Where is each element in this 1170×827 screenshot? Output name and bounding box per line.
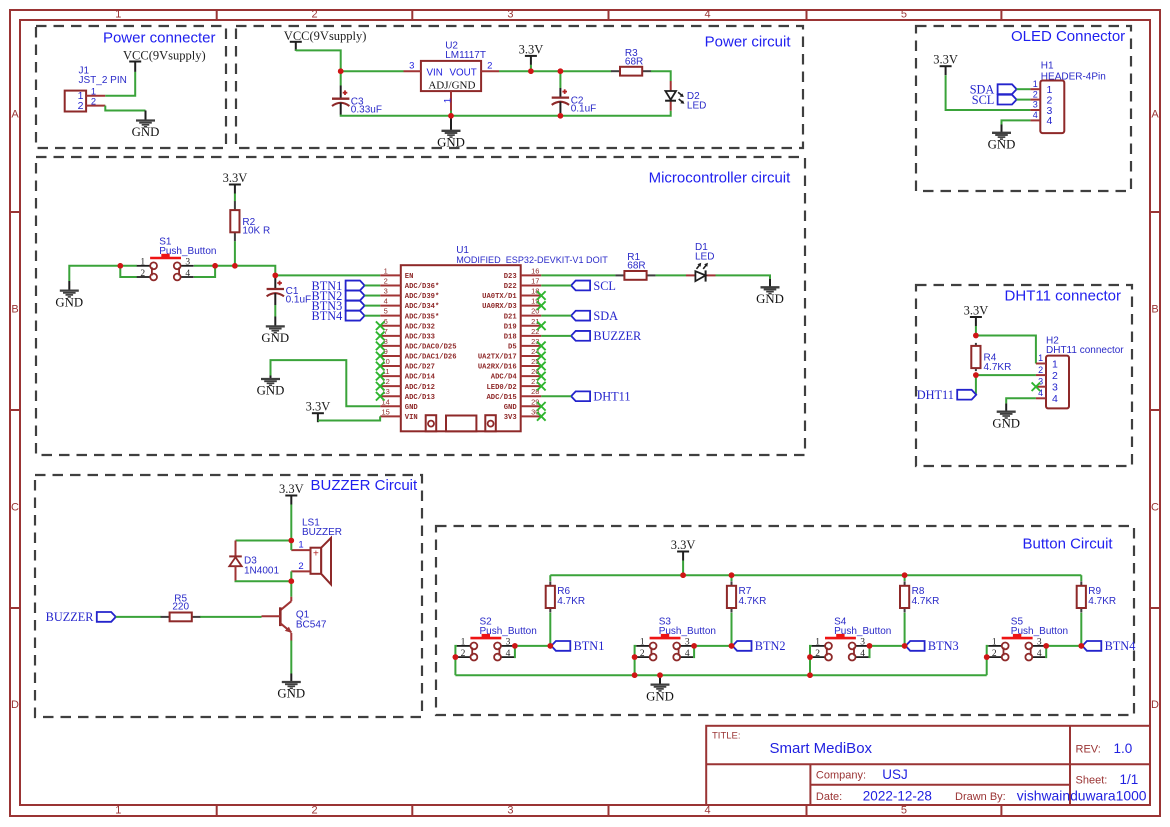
svg-text:GND: GND xyxy=(504,404,518,412)
svg-text:GND: GND xyxy=(756,292,784,306)
svg-text:B: B xyxy=(11,304,18,316)
junction xyxy=(902,643,908,649)
regulator U2 xyxy=(404,41,500,111)
svg-text:ADC/D27: ADC/D27 xyxy=(405,364,435,372)
section Button Circuit xyxy=(436,526,1134,715)
svg-text:4: 4 xyxy=(685,649,690,659)
wire xyxy=(290,641,292,674)
power flag 3.3V VIN xyxy=(306,400,331,423)
svg-text:2: 2 xyxy=(91,97,96,107)
svg-text:2: 2 xyxy=(992,649,997,659)
svg-text:5: 5 xyxy=(384,307,388,316)
net flag BTN2 xyxy=(733,639,786,653)
junction xyxy=(1079,643,1085,649)
resistor R4 xyxy=(971,343,1011,373)
svg-text:68R: 68R xyxy=(625,57,643,68)
svg-text:4: 4 xyxy=(1047,115,1053,127)
ground xyxy=(437,118,465,150)
svg-text:Company:: Company: xyxy=(816,770,866,782)
junction dots overlay xyxy=(118,68,1085,678)
svg-text:2: 2 xyxy=(487,61,492,72)
svg-text:0.33uF: 0.33uF xyxy=(351,105,382,116)
net flag SCL xyxy=(972,93,1017,107)
svg-text:Microcontroller circuit: Microcontroller circuit xyxy=(649,170,792,187)
svg-text:GND: GND xyxy=(437,136,465,150)
power flag 3.3V xyxy=(519,42,544,65)
wire xyxy=(549,575,551,646)
junction buzzer bottom xyxy=(289,578,295,584)
svg-text:4: 4 xyxy=(185,269,190,279)
wire xyxy=(318,416,380,420)
net flag BTN2 xyxy=(312,289,365,303)
ground xyxy=(277,674,305,701)
svg-text:ADC/D32: ADC/D32 xyxy=(405,323,435,331)
wire xyxy=(365,295,381,297)
wire xyxy=(236,580,292,582)
wire xyxy=(274,305,276,317)
wire xyxy=(365,284,381,286)
junction xyxy=(657,672,663,678)
net flag BTN3 xyxy=(906,639,959,653)
svg-text:4: 4 xyxy=(506,649,511,659)
junction xyxy=(807,672,813,678)
junction R4 top xyxy=(973,333,979,339)
svg-text:USJ: USJ xyxy=(882,767,908,782)
svg-text:1: 1 xyxy=(442,98,453,103)
net flag BUZZER xyxy=(571,329,642,343)
svg-text:3: 3 xyxy=(507,805,513,817)
svg-text:1.0: 1.0 xyxy=(1114,741,1133,756)
svg-text:SCL: SCL xyxy=(593,279,616,293)
wire xyxy=(946,75,1031,110)
svg-text:1N4001: 1N4001 xyxy=(244,566,279,577)
net flag SCL xyxy=(571,279,616,293)
svg-text:4.7KR: 4.7KR xyxy=(1088,596,1116,607)
ground xyxy=(55,281,83,309)
pushbutton S5 xyxy=(988,616,1068,660)
svg-text:GND: GND xyxy=(257,384,285,398)
svg-text:4: 4 xyxy=(860,649,865,659)
svg-text:2: 2 xyxy=(461,649,466,659)
svg-text:4: 4 xyxy=(704,805,710,817)
svg-text:Power connecter: Power connecter xyxy=(103,30,216,47)
wire xyxy=(105,72,135,96)
junction xyxy=(729,643,735,649)
header H2 xyxy=(1036,336,1124,409)
svg-text:4.7KR: 4.7KR xyxy=(984,362,1012,373)
svg-text:21: 21 xyxy=(531,317,539,326)
svg-text:2: 2 xyxy=(640,649,645,659)
svg-text:BUZZER: BUZZER xyxy=(302,527,342,538)
svg-text:BTN3: BTN3 xyxy=(928,639,959,653)
svg-text:3.3V: 3.3V xyxy=(964,303,989,317)
svg-text:LED: LED xyxy=(695,252,714,263)
svg-text:ADC/D36*: ADC/D36* xyxy=(405,283,440,291)
svg-text:1: 1 xyxy=(640,638,645,648)
svg-text:4: 4 xyxy=(704,9,710,21)
svg-text:GND: GND xyxy=(55,295,83,309)
power flag VCC(9Vsupply) J1 xyxy=(123,48,206,72)
junction xyxy=(632,654,638,675)
wire xyxy=(290,505,292,541)
wire xyxy=(682,561,684,576)
svg-text:2: 2 xyxy=(815,649,820,659)
net flag BTN1 xyxy=(551,639,604,653)
svg-text:UA2RX/D16: UA2RX/D16 xyxy=(478,364,517,372)
svg-text:2: 2 xyxy=(1052,370,1058,382)
svg-text:GND: GND xyxy=(992,416,1020,430)
wire top rail right xyxy=(499,70,611,72)
wire xyxy=(340,71,342,85)
junction xyxy=(1043,643,1049,657)
svg-text:D: D xyxy=(11,699,19,711)
svg-text:Drawn By:: Drawn By: xyxy=(955,791,1006,803)
svg-text:BC547: BC547 xyxy=(296,620,327,631)
svg-text:ADC/D33: ADC/D33 xyxy=(405,333,435,341)
svg-text:Smart MediBox: Smart MediBox xyxy=(770,740,873,757)
wire xyxy=(200,616,261,618)
resistor R3 xyxy=(611,48,651,75)
net flag DHT11 xyxy=(571,390,630,404)
ground xyxy=(756,279,784,306)
junction top rail left xyxy=(338,68,404,74)
svg-text:2: 2 xyxy=(78,100,84,112)
wire xyxy=(558,68,564,88)
svg-text:ADC/D4: ADC/D4 xyxy=(491,374,518,382)
svg-text:ADC/DAC1/D26: ADC/DAC1/D26 xyxy=(405,354,457,362)
ground xyxy=(988,125,1016,152)
net flag BTN4 xyxy=(1082,639,1135,653)
svg-text:3: 3 xyxy=(1052,382,1058,394)
svg-text:3.3V: 3.3V xyxy=(933,53,958,67)
wire xyxy=(541,274,615,276)
title block xyxy=(706,726,1150,805)
pushbutton S2 xyxy=(457,616,537,660)
wire xyxy=(271,360,381,406)
resistor R9 xyxy=(1077,581,1116,612)
svg-text:1/1: 1/1 xyxy=(1120,772,1139,787)
wire xyxy=(116,616,161,618)
svg-text:DHT11: DHT11 xyxy=(593,390,630,404)
wire xyxy=(290,581,292,597)
junction xyxy=(512,643,518,657)
wire xyxy=(976,336,1036,364)
wire xyxy=(987,646,989,657)
wire xyxy=(1017,88,1031,90)
ground xyxy=(646,678,674,704)
svg-text:3.3V: 3.3V xyxy=(306,400,331,414)
wire xyxy=(716,275,771,279)
svg-text:Sheet:: Sheet: xyxy=(1076,774,1108,786)
wire xyxy=(514,645,550,647)
section BUZZER Circuit xyxy=(35,475,422,717)
pushbutton S3 xyxy=(636,616,716,660)
junction S1 right xyxy=(194,263,218,277)
svg-text:3: 3 xyxy=(185,258,190,268)
svg-text:BUZZER: BUZZER xyxy=(593,329,642,343)
svg-text:3: 3 xyxy=(384,287,388,296)
svg-text:SDA: SDA xyxy=(593,309,618,323)
wire xyxy=(869,645,905,647)
svg-text:1: 1 xyxy=(115,9,121,21)
junction 3.3V rail xyxy=(528,68,534,74)
net flag SDA xyxy=(571,309,618,323)
svg-text:18: 18 xyxy=(531,287,539,296)
svg-text:1: 1 xyxy=(384,266,388,275)
capacitor C1 xyxy=(267,277,312,306)
svg-text:BUZZER Circuit: BUZZER Circuit xyxy=(311,477,419,494)
svg-text:VCC(9Vsupply): VCC(9Vsupply) xyxy=(123,48,206,62)
svg-text:ADC/D12: ADC/D12 xyxy=(405,384,435,392)
svg-text:1: 1 xyxy=(1052,358,1058,370)
wire xyxy=(541,335,571,337)
junction xyxy=(680,572,686,578)
svg-text:2022-12-28: 2022-12-28 xyxy=(863,788,932,803)
svg-text:3.3V: 3.3V xyxy=(223,171,248,185)
resistor R1 xyxy=(615,252,655,280)
svg-text:D: D xyxy=(1151,699,1159,711)
svg-text:2: 2 xyxy=(298,561,303,572)
svg-text:3: 3 xyxy=(507,9,513,21)
junction xyxy=(984,654,990,675)
svg-text:ADC/D14: ADC/D14 xyxy=(405,374,436,382)
power flag 3.3V OLED xyxy=(933,53,958,76)
connector J1 xyxy=(65,66,127,112)
svg-text:1: 1 xyxy=(461,638,466,648)
svg-text:1: 1 xyxy=(115,805,121,817)
resistor R6 xyxy=(546,581,585,612)
transistor Q1 xyxy=(262,597,327,641)
net flag BTN1 xyxy=(312,279,365,293)
wire xyxy=(731,575,733,646)
net flag BUZZER xyxy=(46,610,116,624)
wire xyxy=(1080,575,1082,646)
wire xyxy=(693,645,731,647)
svg-text:16: 16 xyxy=(531,266,539,275)
resistor R7 xyxy=(727,581,766,612)
svg-text:3: 3 xyxy=(409,61,414,72)
section DHT11 connector xyxy=(916,285,1132,466)
wire xyxy=(105,106,145,111)
svg-text:vishwainduwara1000: vishwainduwara1000 xyxy=(1017,787,1147,803)
junction xyxy=(729,572,735,578)
svg-text:Button Circuit: Button Circuit xyxy=(1023,536,1114,553)
section Microcontroller circuit xyxy=(36,157,805,455)
svg-text:4: 4 xyxy=(1037,649,1042,659)
wire top rail xyxy=(550,574,1081,576)
wire xyxy=(365,305,381,307)
svg-text:VIN: VIN xyxy=(427,67,443,78)
LED D2 xyxy=(665,81,706,111)
section Power connecter xyxy=(36,26,226,148)
svg-text:+: + xyxy=(313,549,319,560)
no-connect H2 pin3 xyxy=(1032,382,1041,391)
svg-text:15: 15 xyxy=(382,407,390,416)
svg-text:0.1uF: 0.1uF xyxy=(286,294,312,305)
capacitor C3 xyxy=(332,86,382,116)
wire xyxy=(234,194,236,202)
wire xyxy=(296,50,341,71)
svg-text:D21: D21 xyxy=(504,313,518,321)
svg-text:68R: 68R xyxy=(627,260,645,271)
wire bottom rail xyxy=(341,111,671,116)
svg-text:OLED Connector: OLED Connector xyxy=(1011,28,1125,45)
wire xyxy=(541,284,571,286)
svg-text:UA0RX/D3: UA0RX/D3 xyxy=(482,303,517,311)
header H1 xyxy=(1030,60,1105,133)
svg-text:D5: D5 xyxy=(508,343,517,351)
svg-text:23: 23 xyxy=(531,337,539,346)
svg-text:1: 1 xyxy=(1033,79,1038,89)
svg-text:BTN4: BTN4 xyxy=(312,309,343,323)
buzzer LS1 xyxy=(291,517,342,584)
svg-text:A: A xyxy=(11,109,19,121)
junction buzzer top xyxy=(289,538,295,544)
section OLED Connector xyxy=(916,26,1131,191)
wire xyxy=(810,646,812,657)
wire xyxy=(365,315,381,317)
svg-text:3: 3 xyxy=(1033,100,1038,110)
svg-text:EN: EN xyxy=(405,273,414,281)
svg-text:D23: D23 xyxy=(504,273,517,281)
svg-text:UA2TX/D17: UA2TX/D17 xyxy=(478,354,517,362)
wire xyxy=(541,315,571,317)
svg-text:Date:: Date: xyxy=(816,791,842,803)
svg-text:1: 1 xyxy=(91,87,96,97)
LED D1 xyxy=(686,242,716,281)
junction R4 bottom xyxy=(973,372,979,378)
svg-text:3: 3 xyxy=(1037,638,1042,648)
wire xyxy=(904,575,906,646)
svg-text:BTN4: BTN4 xyxy=(1105,639,1136,653)
svg-text:ADC/D15: ADC/D15 xyxy=(486,394,516,402)
svg-text:LED0/D2: LED0/D2 xyxy=(486,384,516,392)
microcontroller U1 xyxy=(380,245,608,431)
wire xyxy=(236,540,292,542)
wire xyxy=(194,265,235,267)
svg-text:17: 17 xyxy=(531,276,539,285)
svg-text:SCL: SCL xyxy=(972,93,995,107)
power flag 3.3V buzzer xyxy=(279,482,304,505)
svg-text:1: 1 xyxy=(298,540,303,551)
svg-text:JST_2 PIN: JST_2 PIN xyxy=(79,75,127,86)
svg-text:REV:: REV: xyxy=(1076,743,1101,755)
junction S1 left xyxy=(118,263,137,277)
junction xyxy=(632,672,638,678)
wire xyxy=(290,541,292,551)
svg-text:5: 5 xyxy=(901,805,907,817)
svg-text:ADC/D35*: ADC/D35* xyxy=(405,313,440,321)
wire xyxy=(541,395,571,397)
capacitor C2 xyxy=(552,88,597,115)
wire xyxy=(530,65,532,71)
svg-text:C: C xyxy=(1151,502,1159,514)
junction xyxy=(548,643,554,649)
svg-text:2: 2 xyxy=(311,805,317,817)
svg-text:D19: D19 xyxy=(504,323,517,331)
svg-text:UA0TX/D1: UA0TX/D1 xyxy=(482,293,517,301)
ground xyxy=(992,403,1020,430)
pushbutton S4 xyxy=(812,616,892,660)
svg-text:VOUT: VOUT xyxy=(449,67,476,78)
svg-text:3V3: 3V3 xyxy=(504,414,517,422)
svg-text:4.7KR: 4.7KR xyxy=(557,596,585,607)
junction xyxy=(691,643,697,657)
svg-text:4: 4 xyxy=(1052,393,1058,405)
power flag 3.3V DHT11 xyxy=(964,303,989,326)
net flag BTN4 xyxy=(312,309,365,323)
svg-text:3: 3 xyxy=(506,638,511,648)
svg-text:GND: GND xyxy=(261,331,289,345)
wire xyxy=(232,241,238,268)
wire xyxy=(1006,398,1036,403)
pushbutton S1 xyxy=(137,236,217,280)
wire xyxy=(659,675,661,678)
resistor R8 xyxy=(900,581,939,612)
svg-text:10K R: 10K R xyxy=(242,226,270,237)
svg-text:Power circuit: Power circuit xyxy=(705,34,792,51)
svg-text:LM1117T: LM1117T xyxy=(445,50,486,61)
svg-text:2: 2 xyxy=(384,276,388,285)
svg-text:DHT11 connector: DHT11 connector xyxy=(1005,288,1121,305)
svg-text:1: 1 xyxy=(140,258,145,268)
svg-text:LED: LED xyxy=(687,100,706,111)
svg-text:GND: GND xyxy=(132,125,160,139)
svg-text:3.3V: 3.3V xyxy=(519,42,544,56)
svg-text:H1: H1 xyxy=(1041,60,1054,71)
power flag VCC(9Vsupply) xyxy=(284,29,367,51)
svg-text:4: 4 xyxy=(384,297,388,306)
svg-text:VIN: VIN xyxy=(405,414,418,422)
svg-text:MODIFIED_ESP32-DEVKIT-V1 DOIT: MODIFIED_ESP32-DEVKIT-V1 DOIT xyxy=(456,255,608,265)
wire bottom rail xyxy=(455,674,986,676)
svg-text:2: 2 xyxy=(311,9,317,21)
svg-text:GND: GND xyxy=(277,687,305,701)
svg-text:3: 3 xyxy=(860,638,865,648)
svg-text:GND: GND xyxy=(988,138,1016,152)
wire xyxy=(1045,645,1081,647)
svg-text:3.3V: 3.3V xyxy=(671,538,696,552)
net flag BTN3 xyxy=(312,299,365,313)
wire xyxy=(635,646,637,657)
net flag SDA xyxy=(970,83,1017,97)
resistor R5 xyxy=(161,593,201,621)
svg-text:3: 3 xyxy=(685,638,690,648)
junction C2 bottom xyxy=(558,113,564,119)
svg-text:DHT11: DHT11 xyxy=(917,388,954,402)
svg-text:TITLE:: TITLE: xyxy=(712,731,741,742)
junction xyxy=(902,572,908,578)
svg-text:ADC/D39*: ADC/D39* xyxy=(405,293,440,301)
svg-text:2: 2 xyxy=(140,269,145,279)
svg-text:0.1uF: 0.1uF xyxy=(571,104,597,115)
svg-text:2: 2 xyxy=(1033,89,1038,99)
power flag 3.3V R2 xyxy=(223,171,248,194)
wire xyxy=(69,266,137,281)
wire xyxy=(1002,120,1031,124)
wire xyxy=(235,266,380,276)
svg-text:GND: GND xyxy=(405,404,419,412)
wire xyxy=(975,375,977,395)
net flag DHT11 xyxy=(917,388,976,402)
wire xyxy=(455,646,457,657)
junction xyxy=(453,654,459,675)
resistor R2 xyxy=(230,201,270,241)
svg-text:DHT11 connector: DHT11 connector xyxy=(1046,345,1124,356)
svg-text:220: 220 xyxy=(172,602,189,613)
junction ADJ-GND xyxy=(448,111,454,119)
svg-text:D18: D18 xyxy=(504,333,517,341)
